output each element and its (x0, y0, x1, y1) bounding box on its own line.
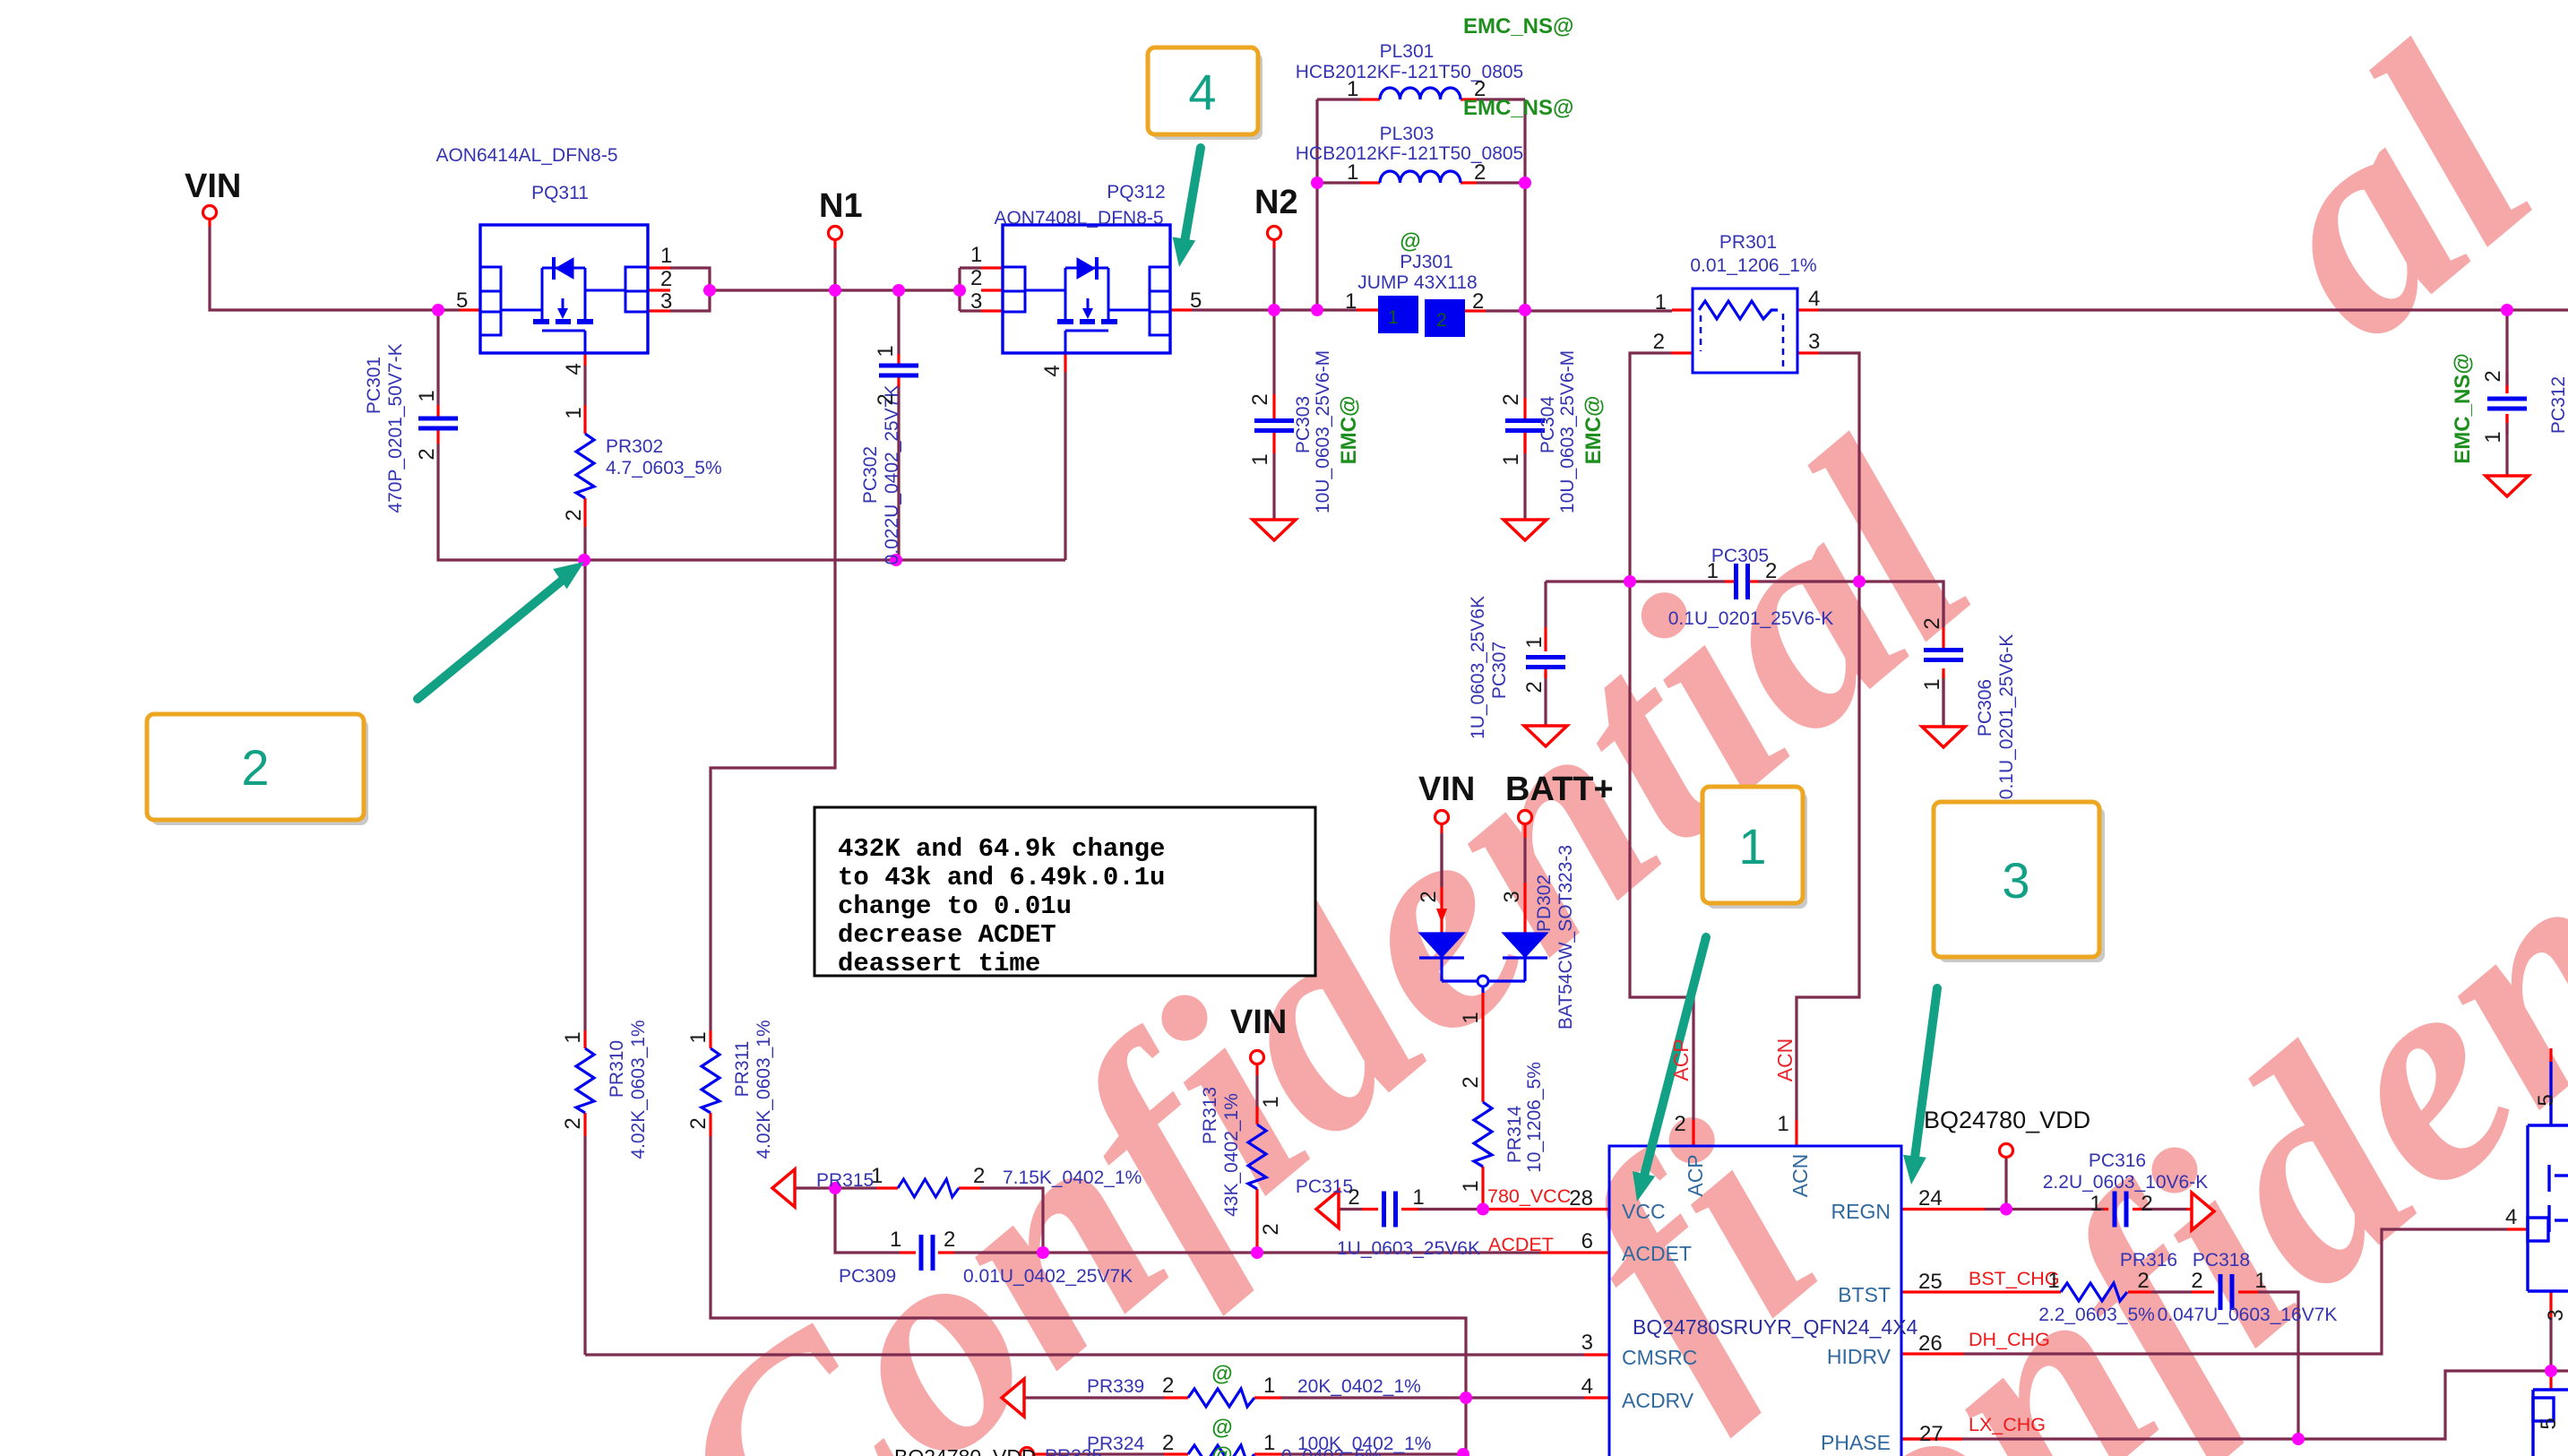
svg-text:3: 3 (1500, 891, 1524, 902)
svg-text:ACDRV: ACDRV (1622, 1389, 1694, 1412)
svg-text:1: 1 (1738, 818, 1766, 874)
svg-text:decrease ACDET: decrease ACDET (838, 920, 1056, 950)
svg-text:3: 3 (970, 289, 982, 314)
svg-text:2: 2 (1474, 77, 1486, 101)
svg-text:4: 4 (562, 363, 586, 375)
svg-text:24: 24 (1918, 1186, 1943, 1210)
svg-text:43K_0402_1%: 43K_0402_1% (1221, 1093, 1242, 1217)
svg-text:470P_0201_50V7-K: 470P_0201_50V7-K (385, 343, 406, 513)
svg-text:2: 2 (2137, 1269, 2149, 1293)
svg-text:2: 2 (1162, 1374, 1174, 1398)
svg-text:2: 2 (970, 266, 982, 290)
svg-text:2: 2 (1765, 559, 1777, 583)
svg-text:4: 4 (2505, 1205, 2517, 1229)
svg-text:1: 1 (1499, 453, 1523, 465)
svg-text:4: 4 (1581, 1374, 1593, 1399)
svg-text:BQ24780SRUYR_QFN24_4X4: BQ24780SRUYR_QFN24_4X4 (1633, 1315, 1918, 1339)
svg-text:4.7_0603_5%: 4.7_0603_5% (606, 458, 722, 478)
svg-text:1: 1 (1707, 559, 1719, 583)
svg-text:LX_CHG: LX_CHG (1969, 1414, 2046, 1435)
svg-text:PL303: PL303 (1380, 124, 1435, 144)
svg-text:0.1U_0201_25V6-K: 0.1U_0201_25V6-K (1996, 634, 2017, 799)
svg-text:1: 1 (1777, 1112, 1788, 1136)
svg-text:PHASE: PHASE (1821, 1431, 1891, 1454)
svg-text:ACDET: ACDET (1622, 1242, 1692, 1265)
svg-text:2: 2 (1348, 1185, 1359, 1210)
svg-text:2: 2 (2481, 370, 2505, 382)
svg-text:2: 2 (2191, 1269, 2202, 1293)
svg-text:2: 2 (1653, 330, 1665, 354)
svg-text:@: @ (1211, 1416, 1232, 1440)
svg-text:ACP: ACP (1669, 1038, 1693, 1081)
svg-text:0_0402_5%: 0_0402_5% (1281, 1446, 1382, 1456)
svg-text:PR314: PR314 (1504, 1106, 1525, 1164)
svg-text:PC303: PC303 (1293, 396, 1314, 453)
svg-text:1: 1 (1920, 678, 1944, 690)
svg-text:4: 4 (1808, 287, 1820, 311)
svg-text:DH_CHG: DH_CHG (1969, 1329, 2050, 1350)
svg-text:PC306: PC306 (1975, 679, 1995, 737)
svg-text:3: 3 (2544, 1309, 2568, 1321)
svg-text:VCC: VCC (1622, 1200, 1666, 1223)
svg-text:JUMP 43X118: JUMP 43X118 (1357, 272, 1477, 293)
svg-text:PL301: PL301 (1380, 41, 1435, 62)
svg-text:3: 3 (2002, 852, 2029, 909)
svg-text:PD302: PD302 (1534, 874, 1555, 932)
svg-text:PR325: PR325 (1045, 1446, 1102, 1456)
svg-text:change to 0.01u: change to 0.01u (838, 892, 1072, 921)
svg-text:1: 1 (970, 243, 982, 267)
svg-text:PJ301: PJ301 (1400, 252, 1453, 272)
svg-text:N2: N2 (1254, 184, 1298, 221)
svg-text:2: 2 (562, 509, 586, 521)
svg-text:VIN: VIN (1230, 1004, 1287, 1041)
svg-text:VIN: VIN (185, 168, 241, 205)
svg-text:2: 2 (874, 393, 898, 405)
svg-text:PC302: PC302 (860, 446, 881, 504)
svg-text:1: 1 (874, 345, 898, 357)
svg-text:1: 1 (1655, 290, 1667, 314)
svg-text:1: 1 (871, 1164, 883, 1188)
svg-text:2: 2 (1474, 160, 1486, 185)
svg-text:1: 1 (1345, 289, 1357, 314)
svg-text:4.02K_0603_1%: 4.02K_0603_1% (628, 1020, 649, 1159)
svg-text:2: 2 (686, 1117, 711, 1129)
svg-text:1U_0603_25V6K: 1U_0603_25V6K (1337, 1238, 1480, 1259)
svg-text:VIN: VIN (1418, 771, 1475, 808)
svg-text:27: 27 (1919, 1422, 1943, 1446)
svg-text:ACP: ACP (1684, 1154, 1707, 1196)
svg-text:1: 1 (2481, 431, 2505, 443)
svg-text:HIDRV: HIDRV (1827, 1345, 1892, 1368)
svg-text:PC309: PC309 (839, 1266, 896, 1287)
svg-text:BQ24780_VDD: BQ24780_VDD (894, 1445, 1037, 1456)
svg-text:10_1206_5%: 10_1206_5% (1524, 1062, 1545, 1173)
svg-text:BQ24780_VDD: BQ24780_VDD (1924, 1107, 2090, 1133)
svg-text:1: 1 (1259, 1096, 1283, 1107)
svg-text:EMC_NS@: EMC_NS@ (1463, 14, 1573, 39)
svg-text:PR339: PR339 (1087, 1376, 1144, 1397)
svg-text:PC315: PC315 (1296, 1176, 1353, 1197)
svg-text:1: 1 (890, 1228, 901, 1252)
svg-text:2: 2 (1417, 891, 1441, 902)
svg-text:PR311: PR311 (732, 1041, 753, 1098)
svg-text:EMC@: EMC@ (1337, 396, 1361, 465)
svg-text:0.1U_0201_25V6-K: 0.1U_0201_25V6-K (1668, 608, 1833, 629)
svg-text:@: @ (1400, 229, 1420, 254)
svg-text:1: 1 (686, 1031, 711, 1043)
svg-text:REGN: REGN (1831, 1200, 1891, 1223)
svg-text:PC304: PC304 (1538, 396, 1558, 454)
svg-text:2: 2 (1522, 681, 1547, 693)
svg-text:2: 2 (1674, 1112, 1685, 1136)
svg-text:3: 3 (1808, 330, 1820, 354)
svg-text:2: 2 (1259, 1223, 1283, 1235)
svg-text:20K_0402_1%: 20K_0402_1% (1297, 1376, 1421, 1397)
svg-text:2: 2 (1436, 310, 1447, 331)
svg-text:PR313: PR313 (1200, 1087, 1220, 1144)
svg-text:ACN: ACN (1773, 1038, 1797, 1082)
svg-text:HCB2012KF-121T50_0805: HCB2012KF-121T50_0805 (1296, 62, 1524, 82)
svg-text:AON7408L_DFN8-5: AON7408L_DFN8-5 (994, 208, 1163, 228)
svg-text:deassert time: deassert time (838, 949, 1040, 978)
svg-text:1: 1 (1459, 1012, 1483, 1023)
svg-text:0.01U_0402_25V7K: 0.01U_0402_25V7K (963, 1266, 1133, 1287)
svg-text:2: 2 (1248, 393, 1272, 405)
svg-text:PQ312: PQ312 (1107, 182, 1165, 202)
svg-text:2: 2 (2141, 1192, 2152, 1216)
svg-text:@: @ (1211, 1443, 1232, 1456)
svg-text:1: 1 (1347, 160, 1358, 185)
svg-text:HCB2012KF-121T50_0805: HCB2012KF-121T50_0805 (1296, 143, 1524, 164)
svg-text:EMC@: EMC@ (1581, 396, 1606, 465)
svg-text:4: 4 (1040, 365, 1064, 376)
svg-text:1: 1 (415, 390, 439, 401)
svg-text:2: 2 (1162, 1431, 1174, 1455)
svg-text:10U_0603_25V6-M: 10U_0603_25V6-M (1313, 350, 1333, 513)
svg-text:2: 2 (944, 1228, 955, 1252)
svg-text:PQ311: PQ311 (531, 183, 589, 203)
svg-text:AON6414AL_DFN8-5: AON6414AL_DFN8-5 (435, 145, 617, 166)
svg-text:1: 1 (1263, 1374, 1275, 1398)
svg-text:PC316: PC316 (2089, 1150, 2146, 1171)
svg-text:1: 1 (2090, 1192, 2101, 1216)
svg-text:PR315: PR315 (816, 1170, 874, 1191)
svg-text:PR316: PR316 (2120, 1250, 2177, 1271)
svg-text:2: 2 (1920, 617, 1944, 629)
svg-text:1: 1 (562, 407, 586, 418)
svg-text:1: 1 (1263, 1431, 1275, 1455)
svg-text:0.01_1206_1%: 0.01_1206_1% (1690, 255, 1816, 276)
svg-text:26: 26 (1918, 1331, 1943, 1356)
svg-text:2: 2 (1499, 393, 1523, 405)
svg-text:PC318: PC318 (2193, 1250, 2250, 1271)
svg-text:5: 5 (1190, 289, 1202, 313)
svg-text:BAT54CW_SOT323-3: BAT54CW_SOT323-3 (1555, 845, 1576, 1030)
svg-text:1: 1 (1459, 1180, 1483, 1192)
svg-text:2: 2 (973, 1164, 985, 1188)
svg-text:7.15K_0402_1%: 7.15K_0402_1% (1003, 1167, 1142, 1188)
svg-text:1: 1 (660, 244, 672, 268)
svg-text:2: 2 (1472, 289, 1484, 314)
svg-text:3: 3 (660, 289, 672, 314)
svg-text:PR302: PR302 (606, 436, 663, 457)
svg-text:EMC_NS@: EMC_NS@ (2451, 353, 2475, 463)
svg-text:3: 3 (1581, 1331, 1593, 1355)
svg-text:0.022U_0402_25V7K: 0.022U_0402_25V7K (882, 385, 902, 565)
svg-text:1: 1 (2254, 1269, 2266, 1293)
svg-text:PC305: PC305 (1711, 546, 1769, 566)
svg-text:1: 1 (1248, 453, 1272, 465)
svg-text:4: 4 (1188, 64, 1216, 120)
svg-text:BST_CHG: BST_CHG (1969, 1268, 2060, 1289)
svg-text:PC301: PC301 (364, 357, 384, 414)
svg-text:25: 25 (1918, 1270, 1943, 1294)
svg-text:4.02K_0603_1%: 4.02K_0603_1% (754, 1020, 774, 1159)
svg-text:N1: N1 (819, 187, 863, 225)
svg-text:2: 2 (660, 267, 672, 291)
svg-text:PC307: PC307 (1489, 642, 1510, 699)
svg-text:1: 1 (1522, 636, 1547, 648)
svg-text:BTST: BTST (1838, 1283, 1891, 1306)
svg-text:5: 5 (2537, 1417, 2561, 1429)
svg-text:6: 6 (1581, 1229, 1593, 1254)
svg-text:2: 2 (241, 739, 269, 796)
svg-text:1: 1 (1347, 77, 1358, 101)
svg-text:BATT+: BATT+ (1505, 771, 1614, 808)
svg-text:1U_0603_25V6K: 1U_0603_25V6K (1468, 596, 1488, 739)
svg-text:5: 5 (2534, 1094, 2558, 1106)
svg-text:@: @ (1211, 1362, 1232, 1386)
svg-text:2.2_0603_5%: 2.2_0603_5% (2038, 1305, 2155, 1325)
svg-text:0.047U_0603_16V7K: 0.047U_0603_16V7K (2158, 1305, 2338, 1325)
svg-text:10U_0603_25V6-M: 10U_0603_25V6-M (1557, 350, 1578, 513)
svg-text:2.2U_0603_10V6-K: 2.2U_0603_10V6-K (2043, 1172, 2208, 1193)
svg-text:1: 1 (561, 1031, 585, 1043)
svg-text:ACDET: ACDET (1488, 1234, 1554, 1255)
svg-text:1: 1 (2047, 1269, 2059, 1293)
svg-text:PR310: PR310 (607, 1040, 627, 1098)
svg-text:432K and 64.9k change: 432K and 64.9k change (838, 834, 1165, 864)
svg-text:PR301: PR301 (1719, 232, 1777, 253)
svg-text:2: 2 (415, 448, 439, 460)
svg-text:ACN: ACN (1788, 1154, 1812, 1198)
svg-text:PC312: PC312 (2548, 376, 2568, 434)
svg-text:5: 5 (456, 289, 468, 313)
svg-text:to 43k and 6.49k.0.1u: to 43k and 6.49k.0.1u (838, 863, 1165, 892)
svg-text:2: 2 (561, 1117, 585, 1129)
svg-text:1: 1 (1388, 307, 1399, 328)
svg-text:2: 2 (1459, 1076, 1483, 1088)
svg-text:CMSRC: CMSRC (1622, 1346, 1697, 1369)
svg-text:1: 1 (1412, 1185, 1424, 1210)
